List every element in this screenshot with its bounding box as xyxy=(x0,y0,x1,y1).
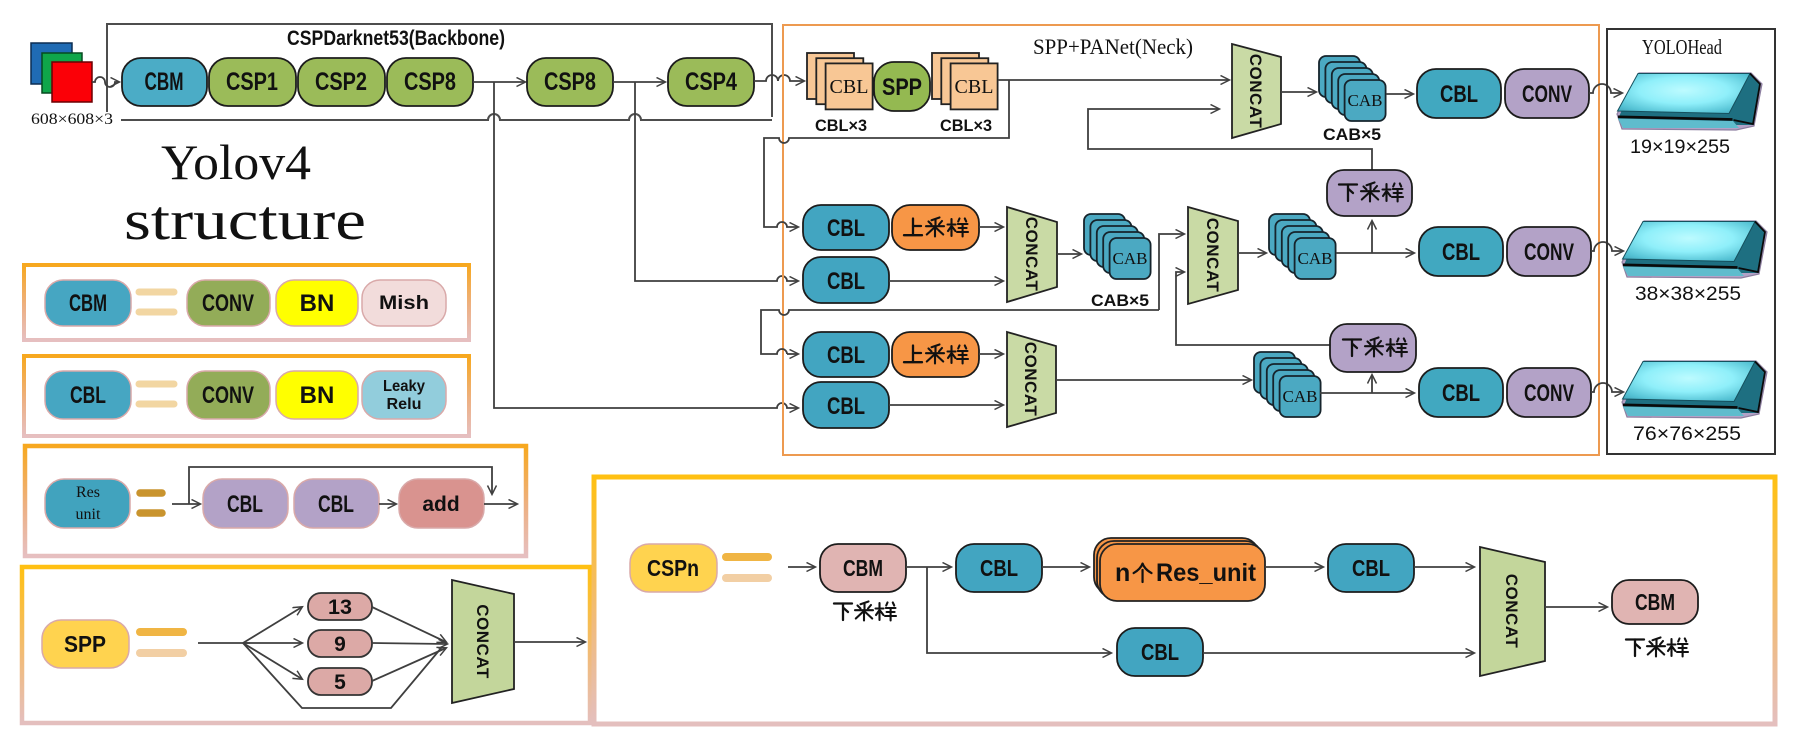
svg-text:608×608×3: 608×608×3 xyxy=(31,111,113,128)
svg-text:CSPDarknet53(Backbone): CSPDarknet53(Backbone) xyxy=(287,27,505,50)
block CSP8 second xyxy=(527,58,613,106)
svg-text:CAB×5: CAB×5 xyxy=(1091,291,1149,310)
svg-text:CBL: CBL xyxy=(70,382,106,409)
svg-text:CONCAT: CONCAT xyxy=(1021,342,1040,417)
svg-text:CONV: CONV xyxy=(1524,380,1574,407)
svg-text:CBM: CBM xyxy=(843,555,883,581)
svg-text:19×19×255: 19×19×255 xyxy=(1630,137,1730,158)
block CBL head2 xyxy=(1419,227,1503,276)
concat trapezoid SPP legend xyxy=(452,580,514,703)
block CBL cspn bottom xyxy=(1117,628,1203,676)
wire CBM to CBL top with branch xyxy=(906,566,951,568)
block SPP neck xyxy=(874,62,930,111)
wire CAB row3 to CBL head3 with branch up to downsample2 xyxy=(1320,392,1414,394)
svg-text:CBL×3: CBL×3 xyxy=(940,116,992,135)
equals sign gold xyxy=(726,553,768,561)
CAB stack row2 B xyxy=(1269,214,1336,279)
block BN legend1 xyxy=(276,280,358,326)
svg-text:CBL: CBL xyxy=(227,491,263,518)
block CONV legend2 xyxy=(187,371,270,419)
block BN legend2 xyxy=(276,371,358,419)
block downsample 1 xyxy=(1327,170,1412,216)
CBL x3 stack 1 xyxy=(807,53,873,109)
block CONV legend1 xyxy=(187,280,270,326)
block maxpool 5 xyxy=(308,668,372,695)
backbone frame CSPDarknet53 xyxy=(107,24,772,117)
legend box CBM xyxy=(24,265,469,340)
equals sign xyxy=(139,292,174,312)
svg-text:CONV: CONV xyxy=(202,290,254,317)
svg-text:YOLOHead: YOLOHead xyxy=(1642,35,1722,59)
wire branch CSP8-2 down to row2b xyxy=(635,82,798,281)
slab output 76x76x255 xyxy=(1622,361,1767,418)
wire upsample2 to concat2 xyxy=(979,226,1003,228)
wire upsample3 to concat4 xyxy=(979,353,1003,355)
block CBL res1 xyxy=(203,479,288,528)
svg-text:CSP8: CSP8 xyxy=(544,68,596,96)
wire CBL to add xyxy=(379,503,396,505)
svg-text:Mish: Mish xyxy=(379,293,429,314)
wire CAB-B to CBL head2 with branch up to downsample1 xyxy=(1336,252,1414,254)
block maxpool 13 xyxy=(308,593,372,620)
block upsample row3 xyxy=(892,332,979,377)
input image red square xyxy=(52,62,92,102)
svg-text:CBL: CBL xyxy=(1442,239,1480,266)
svg-text:CBL: CBL xyxy=(1352,555,1390,581)
svg-text:structure: structure xyxy=(124,190,366,252)
block CSPn xyxy=(630,544,717,592)
wire CSPn input arrow xyxy=(788,566,815,568)
equals sign xyxy=(139,384,174,404)
wire bus row2-row3 (left to row3a, right up to concat3) xyxy=(761,310,1159,354)
wire branch CSP8-1 down to row3b xyxy=(494,82,798,408)
svg-text:5: 5 xyxy=(334,671,346,694)
svg-text:CBM: CBM xyxy=(69,290,107,317)
svg-text:CONV: CONV xyxy=(202,382,254,409)
block CBM backbone xyxy=(122,58,207,106)
wire CONV1 to slab1 (wavy) xyxy=(1589,84,1622,93)
wire CONV2 to slab2 (wavy) xyxy=(1591,242,1623,251)
neck frame SPP+PANet xyxy=(783,25,1599,455)
svg-text:CSP1: CSP1 xyxy=(226,68,278,96)
svg-text:SPP: SPP xyxy=(882,74,922,101)
block CONV head2 xyxy=(1507,227,1591,276)
svg-text:CBL×3: CBL×3 xyxy=(815,116,867,135)
svg-text:Res: Res xyxy=(76,484,100,501)
svg-text:CBL: CBL xyxy=(827,342,865,369)
wire concat2 to CAB-A xyxy=(1057,253,1081,255)
concat trapezoid 3 xyxy=(1188,207,1238,304)
input image green square xyxy=(42,53,82,93)
CBL x3 stack 2 xyxy=(932,53,998,109)
block Res unit xyxy=(45,479,130,528)
block CBM cspn-out xyxy=(1612,580,1698,624)
wire downsample2 to concat3 xyxy=(1176,272,1330,345)
svg-text:CONV: CONV xyxy=(1524,239,1574,266)
svg-text:CBL: CBL xyxy=(1440,81,1478,108)
block CBL head3 xyxy=(1419,368,1503,417)
block Leaky Relu xyxy=(362,371,446,419)
CAB stack row2 A xyxy=(1084,214,1151,279)
svg-text:CBL: CBL xyxy=(827,215,865,242)
svg-text:CBM: CBM xyxy=(1635,589,1675,615)
block CONV head1 xyxy=(1505,69,1589,118)
block CBL head1 xyxy=(1417,69,1501,118)
svg-text:CONCAT: CONCAT xyxy=(1203,218,1222,293)
wire res skip connection xyxy=(189,467,492,504)
svg-text:CBL: CBL xyxy=(1442,380,1480,407)
svg-text:SPP: SPP xyxy=(64,631,106,657)
block CBL cspn mid xyxy=(1328,544,1414,592)
legend box CBL xyxy=(24,356,469,436)
wire CONV3 to slab3 (wavy) xyxy=(1591,383,1623,392)
equals sign dark gold xyxy=(140,493,162,513)
block CONV head3 xyxy=(1507,368,1591,417)
svg-text:unit: unit xyxy=(76,506,101,523)
svg-text:CBL: CBL xyxy=(318,491,354,518)
wire CBL row2b to concat2 xyxy=(889,280,1003,282)
wire CBL to res stack xyxy=(1042,566,1089,568)
block CSP2 xyxy=(298,58,385,106)
svg-text:76×76×255: 76×76×255 xyxy=(1633,424,1741,445)
slab output 19x19x255 xyxy=(1617,73,1762,130)
wire fanout to 13 xyxy=(243,607,302,643)
concat trapezoid 6 xyxy=(1480,547,1545,676)
concat trapezoid 4 xyxy=(1007,332,1056,427)
CAB stack row3 xyxy=(1254,352,1321,417)
YOLOHead frame xyxy=(1607,29,1775,454)
wire CBL bottom to concat6 xyxy=(1203,652,1474,654)
CAB stack row1 xyxy=(1319,56,1386,121)
legend box CSPn xyxy=(594,477,1775,724)
wire concat1 to CAB row1 xyxy=(1281,91,1316,93)
block downsample 2 xyxy=(1330,324,1416,372)
block SPP legend xyxy=(42,620,129,668)
wire concat4 to CAB row3 xyxy=(1056,379,1251,381)
svg-text:CSPn: CSPn xyxy=(647,555,699,581)
wire SPPout branch down-left to row2a xyxy=(764,80,1009,227)
wire concat3 to CAB-B xyxy=(1238,252,1266,254)
svg-text:CBM: CBM xyxy=(145,68,184,96)
wire CBL mid to concat6 xyxy=(1414,566,1474,568)
svg-text:CBL: CBL xyxy=(827,268,865,295)
block upsample row2 xyxy=(892,205,979,250)
svg-text:CONCAT: CONCAT xyxy=(1022,217,1041,292)
concat trapezoid 2 xyxy=(1007,207,1057,302)
block CBM cspn-in xyxy=(820,544,906,592)
block CSP8 first xyxy=(387,58,473,106)
block n Res_unit stack xyxy=(1094,538,1265,601)
block CBM legend xyxy=(45,280,131,326)
svg-text:Res_unit: Res_unit xyxy=(1156,559,1257,587)
wire branch down to CBL bottom xyxy=(927,567,1111,653)
block CBL row3a xyxy=(803,332,889,377)
svg-text:Yolov4: Yolov4 xyxy=(161,134,311,190)
block CBL res2 xyxy=(294,479,379,528)
wire input to CBM (wavy) xyxy=(92,77,119,87)
wire 9 to concat xyxy=(372,643,447,644)
input image blue square xyxy=(31,43,72,84)
block add xyxy=(399,479,484,528)
svg-text:CSP4: CSP4 xyxy=(685,68,737,96)
wire res stack to CBL mid xyxy=(1265,566,1323,568)
wire 13 to concat xyxy=(372,607,446,642)
wire fanout to 9 xyxy=(243,642,302,644)
legend box SPP xyxy=(22,567,590,723)
label downsample under CBM xyxy=(834,602,896,621)
wire concat6 to CBM out xyxy=(1545,606,1607,608)
svg-text:add: add xyxy=(422,493,459,516)
wire bypass bottom xyxy=(243,643,442,708)
slab output 38x38x255 xyxy=(1622,221,1767,278)
wire SPPout to concat1 xyxy=(998,79,1229,81)
svg-text:CONV: CONV xyxy=(1522,81,1572,108)
legend box Res unit xyxy=(25,446,526,556)
svg-text:13: 13 xyxy=(328,596,352,619)
wire CSP8 to CSP8 xyxy=(473,81,525,83)
wire concat output xyxy=(514,641,585,643)
concat trapezoid 1 xyxy=(1232,44,1281,138)
block CBL row2a xyxy=(803,205,889,250)
svg-text:CONCAT: CONCAT xyxy=(1246,54,1265,129)
svg-text:38×38×255: 38×38×255 xyxy=(1635,284,1741,305)
svg-text:BN: BN xyxy=(300,290,335,317)
svg-text:CONCAT: CONCAT xyxy=(1502,574,1521,649)
svg-text:CSP2: CSP2 xyxy=(315,68,367,96)
svg-text:9: 9 xyxy=(334,633,346,656)
svg-text:CBL: CBL xyxy=(980,555,1018,581)
wire CSP8 to CSP4 xyxy=(613,81,665,83)
svg-text:BN: BN xyxy=(300,382,335,409)
wire fanout to 5 xyxy=(243,643,302,679)
wire res input xyxy=(172,503,200,505)
block Mish xyxy=(362,280,446,326)
svg-text:Leaky: Leaky xyxy=(383,378,425,395)
svg-text:Relu: Relu xyxy=(387,396,422,413)
block CBL cspn top xyxy=(956,544,1042,592)
wire CAB row1 to CBL xyxy=(1386,93,1413,95)
wire add output xyxy=(484,503,517,505)
wire 5 to concat xyxy=(372,648,446,681)
svg-text:CBL: CBL xyxy=(1141,639,1179,665)
svg-text:CONCAT: CONCAT xyxy=(473,604,492,679)
wire CSP4 to neck (wavy) xyxy=(754,75,804,81)
svg-text:CBL: CBL xyxy=(827,393,865,420)
svg-text:n: n xyxy=(1115,559,1130,587)
svg-text:SPP+PANet(Neck): SPP+PANet(Neck) xyxy=(1033,34,1193,59)
wire downsample1 up to concat1 xyxy=(1088,109,1372,170)
label downsample under CBM out xyxy=(1626,638,1688,657)
wire CBL row3b to concat4 xyxy=(889,404,1003,406)
svg-text:CSP8: CSP8 xyxy=(404,68,456,96)
block CBL row2b xyxy=(803,257,889,303)
block CSP4 xyxy=(668,58,754,106)
block CBL legend xyxy=(45,371,131,419)
wire spp input xyxy=(198,642,250,644)
equals sign gold xyxy=(140,628,183,636)
block maxpool 9 xyxy=(308,630,372,657)
svg-text:CAB×5: CAB×5 xyxy=(1323,125,1381,144)
block CBL row3b xyxy=(803,382,889,428)
block CSP1 xyxy=(209,58,296,106)
